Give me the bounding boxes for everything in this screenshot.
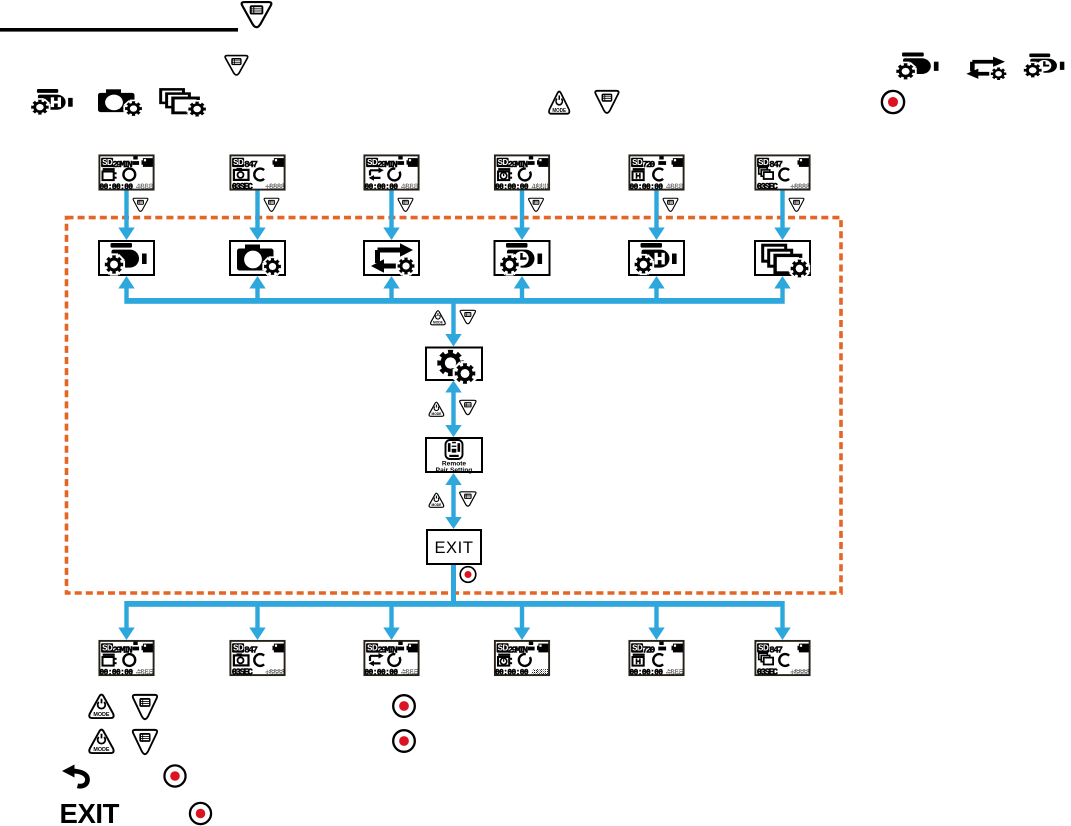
legend icon: HD video mode [31,89,73,115]
header rule line [0,28,238,32]
svg-text:4888: 4888 [666,183,684,192]
box: remote pair setting [426,438,482,474]
blue arrow down: to exit box [445,517,461,529]
legend icon: loop mode (top right) [966,57,1006,80]
svg-text:4888: 4888 [401,668,419,677]
wire: exit box down to lower bus [451,565,456,602]
small menu button icon (column 4) [529,198,544,211]
blue arrow down: lower bus to bottom loop screen [383,607,399,641]
mode box: HD video settings [629,241,684,275]
record button (legend row 3) [164,765,185,786]
box: EXIT [427,530,481,564]
record button (legend row 2) [393,730,415,752]
svg-text:Pair Setting: Pair Setting [436,467,473,474]
svg-text:+8888: +8888 [790,668,811,677]
mode box: loop settings [364,241,419,275]
blue arrow down: screen to time-lapse video settings box [514,191,530,241]
box: camera settings (gears) [426,348,482,384]
svg-text:EXIT: EXIT [60,798,120,826]
LCD screen: bottom video screen [99,641,153,678]
blue arrow up: bus line to photo settings box [249,276,265,299]
LCD screen: bottom time-lapse video screen [495,641,549,678]
LCD screen: bottom burst screen [755,641,810,678]
small menu button icon (column 2) [264,198,279,211]
svg-text:00:00:00: 00:00:00 [365,669,399,677]
blue arrow down: lower bus to bottom time-lapse video screen [514,607,530,641]
LCD screen: top video screen [99,155,153,192]
record button (beside exit wire) [460,567,476,583]
svg-text:+8888: +8888 [790,183,811,192]
menu button icon (legend row 1) [133,695,157,719]
legend icon: video mode (top right) [896,53,938,80]
mode box: photo settings [230,241,285,275]
blue arrow down: lower bus to bottom burst screen [774,607,790,641]
blue arrow down: lower bus to bottom photo screen [249,607,265,641]
svg-text:EXIT: EXIT [434,539,473,557]
svg-text:+8888: +8888 [265,668,286,677]
svg-text:SD: SD [233,644,244,653]
svg-text:847: 847 [244,159,257,170]
menu button icon (legend row 2) [133,730,157,754]
svg-text:00:00:00: 00:00:00 [630,669,664,677]
small menu button icon (column 5) [663,198,678,211]
blue bus line (upper) [124,298,784,304]
blue arrow up: camera settings to bus [445,381,461,393]
svg-text:4888: 4888 [531,183,549,192]
svg-text:SD: SD [758,158,769,167]
mode button icon (pair 1) [431,311,446,325]
menu button icon (pair 1) [460,310,475,324]
svg-text:847: 847 [244,644,257,655]
LCD screen: top HD video screen [629,155,683,192]
menu button icon (center top) [595,91,618,113]
small menu button icon (column 1) [133,198,148,211]
svg-text:847: 847 [769,644,782,655]
mode box: video settings [99,241,154,275]
back arrow icon (legend row 3) [62,765,88,787]
svg-text:00:00:00: 00:00:00 [495,669,529,677]
menu button icon (pair 2) [460,400,476,414]
mode button icon (legend row 2) [89,730,113,753]
blue arrow down: bus to camera settings box [445,304,461,347]
svg-text:SD: SD [233,158,244,167]
blue arrow up: bus line to HD video settings box [648,276,664,299]
menu button icon medium [225,56,248,75]
mode button icon (pair 2) [429,402,444,416]
LCD screen: top time-lapse video screen [495,155,549,192]
LCD screen: top burst screen [755,155,810,192]
small menu button icon (column 6) [789,198,804,211]
legend icon: time-lapse video mode (top right) [1024,54,1065,78]
orange dashed region [67,218,842,593]
mode box: time-lapse video settings [495,241,550,275]
blue arrow down: to remote pair setting box [445,425,461,437]
svg-text:03SEC: 03SEC [757,182,779,192]
svg-text:03SEC: 03SEC [232,667,254,677]
blue arrow down: lower bus to bottom video screen [118,607,134,641]
LCD screen: bottom HD video screen [629,641,683,678]
svg-text:SD: SD [758,644,769,653]
blue arrow down: screen to HD video settings box [648,191,664,241]
svg-text:4888: 4888 [531,668,549,677]
record button (legend row 4) [190,803,211,824]
LCD screen: top loop screen [364,155,418,192]
blue arrow down: screen to photo settings box [249,191,265,241]
svg-text:4888: 4888 [136,668,154,677]
small menu button icon (column 3) [398,198,413,211]
svg-text:03SEC: 03SEC [232,182,254,192]
svg-text:03SEC: 03SEC [757,667,779,677]
LCD screen: bottom photo screen [230,641,285,678]
menu button icon (pair 3) [460,492,476,506]
svg-text:4888: 4888 [136,183,154,192]
legend icon: burst mode [161,89,206,116]
blue arrow up: bus line to video settings box [118,276,134,299]
record button (legend row 1) [393,695,415,717]
menu button icon large (header) [242,2,272,27]
svg-text:4888: 4888 [401,183,419,192]
blue arrow down: screen to video settings box [118,191,134,241]
blue arrow down: screen to burst settings box [774,191,790,241]
blue arrow down: lower bus to bottom HD video screen [648,607,664,641]
wire: center vertical (1) [451,393,455,426]
blue bus line (lower) [124,601,784,607]
mode button icon (center top) [549,92,569,114]
LCD screen: top photo screen [230,155,285,192]
record button (top right) [882,91,904,113]
svg-text:4888: 4888 [666,668,684,677]
mode button icon (pair 3) [429,493,444,507]
svg-text:847: 847 [769,159,782,170]
legend icon: photo mode [98,89,142,116]
svg-text:+8888: +8888 [265,183,286,192]
blue arrow down: screen to loop settings box [383,191,399,241]
blue arrow up: bus line to burst settings box [774,276,790,299]
blue arrow up: remote box to up [445,473,461,485]
blue arrow up: bus line to time-lapse video settings box [514,276,530,299]
svg-text:00:00:00: 00:00:00 [100,669,134,677]
LCD screen: bottom loop screen [364,641,418,678]
blue arrow up: bus line to loop settings box [383,276,399,299]
mode button icon (legend row 1) [89,695,113,718]
mode box: burst settings [755,241,810,277]
wire: center vertical (2) [451,485,455,517]
